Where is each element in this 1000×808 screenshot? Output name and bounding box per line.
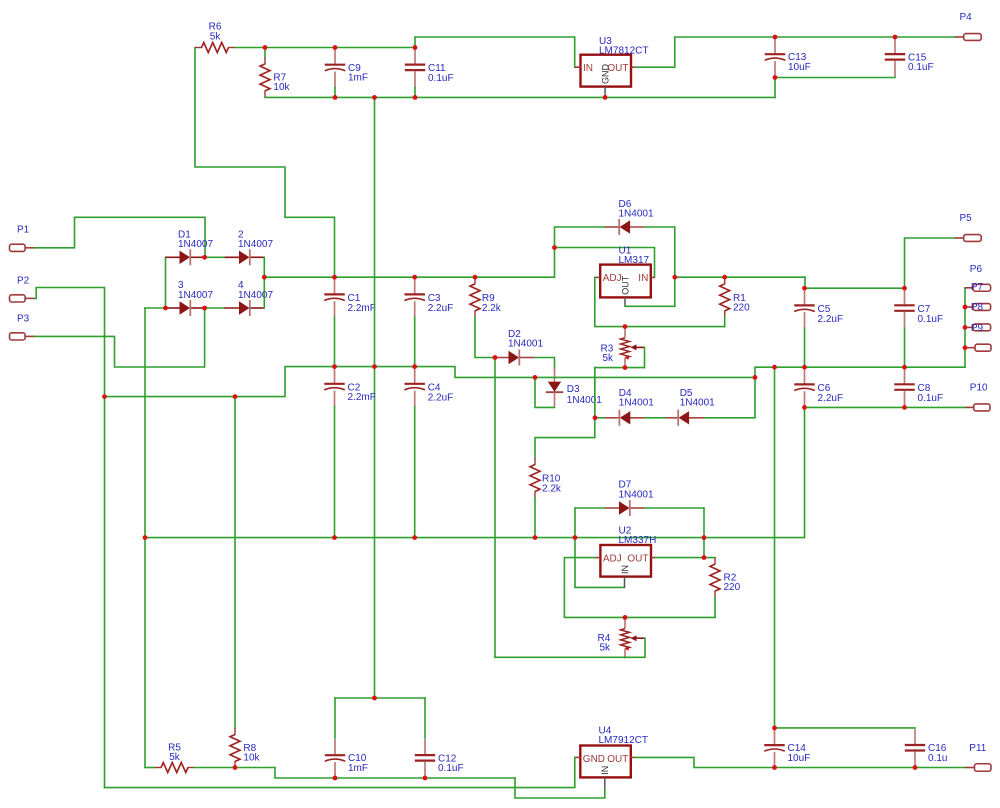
svg-text:5k: 5k — [210, 31, 222, 42]
wire D7 left branch — [575, 507, 605, 509]
wire D1-D2 link — [205, 256, 225, 258]
wire left AC feed down — [144, 308, 146, 538]
potentiometer R4 — [621, 619, 645, 659]
junction — [802, 286, 807, 291]
junction — [963, 325, 968, 330]
svg-text:LM317: LM317 — [619, 255, 650, 266]
connector P4 — [955, 34, 981, 41]
svg-text:P9: P9 — [971, 323, 984, 334]
wire bottom rail step2 into U4 IN — [515, 778, 605, 798]
wire C10 top stub — [334, 698, 336, 738]
pin lead U1 OUT — [624, 297, 626, 306]
pin lead U4 IN — [604, 777, 606, 788]
junction — [202, 306, 207, 311]
junction — [163, 306, 168, 311]
svg-text:5k: 5k — [603, 353, 615, 364]
junction — [233, 394, 238, 399]
svg-text:ADJ: ADJ — [603, 553, 622, 564]
svg-text:P4: P4 — [960, 12, 973, 23]
wire C5 bottom stub — [804, 328, 806, 367]
wire C11 bottom stub — [414, 88, 416, 98]
wire D7 right down — [703, 508, 705, 558]
svg-text:1N4007: 1N4007 — [238, 239, 273, 250]
svg-text:LM7812CT: LM7812CT — [599, 46, 648, 57]
resistor R1 — [720, 277, 730, 317]
capacitor C13 — [765, 38, 786, 77]
wire D6 right down to OUT loop — [645, 227, 675, 306]
junction — [413, 45, 418, 50]
svg-text:LM7912CT: LM7912CT — [599, 735, 648, 746]
capacitor C4 — [404, 368, 425, 407]
junction — [412, 364, 417, 369]
wire C13/C15 bottom link — [775, 78, 895, 98]
junction — [672, 275, 677, 280]
regulator U3 LM7812CT — [581, 55, 632, 87]
svg-text:IN: IN — [600, 766, 610, 775]
svg-text:OUT: OUT — [607, 754, 628, 765]
connector P8 — [965, 304, 991, 311]
connector P11 — [965, 764, 991, 772]
diode D2 1N4001 — [495, 350, 535, 366]
wire D5 up to mid rail — [705, 377, 756, 417]
diode 4 1N4007 — [225, 300, 265, 316]
junction — [332, 535, 337, 540]
potentiometer R3 — [621, 328, 645, 368]
wire top rail to U3 IN — [415, 37, 575, 67]
connector P1 — [10, 244, 35, 251]
capacitor C15 — [885, 38, 905, 77]
wire R5 left stub — [145, 767, 155, 769]
wire top ground rail — [265, 96, 775, 98]
junction — [333, 776, 338, 781]
svg-text:220: 220 — [724, 582, 741, 593]
wire neg rail into U2 IN — [575, 508, 625, 587]
junction — [623, 365, 628, 370]
junction — [263, 45, 268, 50]
wire to P5 — [905, 238, 956, 288]
svg-text:1N4001: 1N4001 — [508, 338, 543, 349]
wire C14-C16 top link — [775, 727, 916, 729]
capacitor C14 — [764, 729, 785, 768]
svg-text:0.1uF: 0.1uF — [918, 393, 944, 404]
junction — [772, 365, 777, 370]
junction — [963, 305, 968, 310]
capacitor C9 — [325, 49, 346, 88]
junction — [802, 405, 807, 410]
capacitor C1 — [324, 278, 345, 317]
svg-text:P5: P5 — [960, 213, 973, 224]
regulator U4 LM7912CT — [580, 746, 631, 778]
svg-text:ADJ: ADJ — [603, 273, 622, 284]
svg-text:GND: GND — [583, 754, 605, 765]
svg-text:2.2mF: 2.2mF — [348, 303, 376, 314]
pin lead U1 IN — [651, 276, 655, 278]
capacitor C8 — [894, 368, 914, 407]
pin lead U2 OUT — [651, 557, 656, 559]
resistor R6 — [195, 43, 235, 53]
junction — [722, 275, 727, 280]
junction — [143, 535, 148, 540]
connector P9 — [965, 324, 991, 331]
svg-text:0.1uF: 0.1uF — [438, 763, 464, 774]
wire bridge right vertical — [263, 257, 265, 308]
svg-text:220: 220 — [733, 303, 750, 314]
wire P3 to bridge bottom — [35, 308, 205, 367]
junction — [802, 365, 807, 370]
junction — [423, 776, 428, 781]
junction — [332, 275, 337, 280]
diode D4 1N4001 — [605, 410, 645, 426]
pin lead U2 ADJ — [595, 557, 600, 559]
svg-text:0.1u: 0.1u — [928, 753, 947, 764]
svg-text:GND: GND — [601, 64, 611, 85]
svg-text:P6: P6 — [970, 264, 983, 275]
resistor R9 — [470, 277, 480, 317]
svg-text:1N4007: 1N4007 — [178, 290, 213, 301]
diode D5 1N4001 — [666, 410, 705, 426]
pin lead U3 OUT — [631, 66, 636, 68]
resistor R5 — [155, 763, 195, 773]
svg-text:P10: P10 — [970, 382, 988, 393]
junction — [902, 405, 907, 410]
svg-text:LM337H: LM337H — [619, 535, 657, 546]
svg-text:1N4007: 1N4007 — [238, 290, 273, 301]
junction — [552, 245, 557, 250]
junction — [333, 45, 338, 50]
wire D7 right branch — [645, 507, 705, 509]
junction — [413, 95, 418, 100]
svg-text:IN: IN — [583, 63, 593, 74]
wire P2 down left side — [35, 288, 105, 397]
junction — [473, 275, 478, 280]
junction — [773, 75, 778, 80]
svg-text:2.2mF: 2.2mF — [348, 392, 376, 403]
wire left branch down to R5 — [144, 538, 146, 768]
diode 3 1N4007 — [166, 300, 205, 316]
junction — [902, 365, 907, 370]
junction — [372, 696, 377, 701]
pin lead U3 GND — [604, 87, 606, 98]
svg-text:2.2k: 2.2k — [542, 483, 562, 494]
wire bottom rail step1 — [275, 768, 515, 779]
connector P7 — [965, 284, 991, 291]
junction — [372, 364, 377, 369]
wire C6/C8 bottom to P10 — [805, 406, 966, 408]
wire U2 OUT — [656, 557, 715, 559]
svg-text:P7: P7 — [971, 282, 984, 293]
wire output header stack — [964, 288, 966, 367]
wire bridge left tap — [145, 307, 166, 309]
capacitor C2 — [324, 368, 345, 407]
svg-text:2.2uF: 2.2uF — [428, 303, 454, 314]
svg-text:1mF: 1mF — [348, 73, 368, 84]
wire C1 bottom stub — [334, 317, 336, 366]
junction — [533, 535, 538, 540]
junction — [493, 355, 498, 360]
svg-text:P1: P1 — [17, 225, 30, 236]
capacitor C5 — [794, 289, 815, 328]
junction — [102, 394, 107, 399]
wire D4-D5 link — [645, 417, 666, 419]
wire center vertical upper — [374, 97, 376, 366]
svg-text:5k: 5k — [600, 643, 612, 654]
svg-text:P2: P2 — [17, 276, 30, 287]
svg-text:OUT: OUT — [620, 275, 630, 295]
capacitor C16 — [905, 729, 925, 768]
junction — [772, 765, 777, 770]
svg-text:1N4001: 1N4001 — [567, 395, 602, 406]
wire lower mid rail — [145, 537, 805, 539]
svg-text:0.1uF: 0.1uF — [908, 62, 934, 73]
svg-text:5k: 5k — [169, 752, 181, 763]
wire R10 bottom stub — [534, 498, 536, 538]
svg-text:OUT: OUT — [607, 63, 628, 74]
junction — [963, 345, 968, 350]
resistor R8 — [230, 728, 240, 768]
regulator U2 LM337H — [600, 545, 651, 577]
wire U1 OUT loop — [625, 305, 675, 307]
capacitor C10 — [325, 739, 346, 778]
diode 2 1N4007 — [225, 249, 265, 265]
connector P10 — [965, 404, 990, 411]
junction — [593, 415, 598, 420]
wire R3 bottom link — [595, 367, 645, 369]
wire U1 ADJ net — [595, 277, 725, 326]
wire R8 top feed — [234, 397, 236, 728]
pin lead U3 IN — [575, 66, 581, 68]
svg-text:2.2uF: 2.2uF — [818, 393, 844, 404]
wire C4 bottom stub — [414, 407, 416, 538]
wire U2 ADJ loop — [564, 558, 715, 618]
pin lead U1 ADJ — [595, 276, 600, 278]
wire right vertical to C14 — [774, 367, 776, 728]
junction — [913, 765, 918, 770]
svg-text:1N4007: 1N4007 — [178, 239, 213, 250]
wire +out step to C5/C7 — [805, 277, 905, 288]
junction — [573, 535, 578, 540]
wire R5 to step — [195, 767, 276, 769]
wire to D4 — [595, 417, 605, 419]
svg-text:0.1uF: 0.1uF — [428, 73, 454, 84]
junction — [412, 535, 417, 540]
junction — [372, 95, 377, 100]
wire C3 bottom stub — [414, 317, 416, 366]
pin lead U2 IN — [624, 577, 626, 588]
svg-text:D3: D3 — [567, 384, 580, 395]
svg-text:1N4001: 1N4001 — [680, 398, 715, 409]
junction — [623, 324, 628, 329]
wire +output rail — [675, 276, 805, 278]
junction — [332, 364, 337, 369]
svg-text:P8: P8 — [971, 302, 984, 313]
wire R7 top stub — [264, 48, 266, 58]
wire R1 bottom stub — [724, 317, 726, 326]
svg-text:10uF: 10uF — [788, 62, 811, 73]
pin lead U4 OUT — [631, 756, 636, 758]
wire P1 to bridge — [35, 217, 205, 257]
junction — [623, 615, 628, 620]
svg-text:0.1uF: 0.1uF — [918, 314, 944, 325]
svg-text:IN: IN — [638, 273, 648, 284]
wire ADJ net down to R10 — [535, 368, 595, 458]
resistor R10 — [530, 458, 540, 498]
wire R4 bottom / wiper tie — [495, 638, 645, 657]
wire P2 net to bottom rail — [104, 397, 106, 788]
svg-text:1mF: 1mF — [348, 763, 368, 774]
junction — [772, 726, 777, 731]
wire D3-D4 link — [205, 307, 225, 309]
connector P5 — [955, 235, 981, 242]
regulator U1 LM317 — [600, 265, 651, 298]
wire R3 wiper tie — [644, 347, 646, 367]
pin lead D3 top — [554, 368, 556, 381]
svg-text:2.2uF: 2.2uF — [818, 314, 844, 325]
wire R9 bottom to D2 — [475, 317, 495, 357]
svg-text:1N4001: 1N4001 — [619, 489, 654, 500]
capacitor C7 — [894, 289, 914, 328]
wire U4 GND to bottom-most rail — [105, 757, 575, 787]
junction — [533, 375, 538, 380]
svg-text:10uF: 10uF — [788, 753, 811, 764]
capacitor C3 — [404, 278, 425, 317]
junction — [902, 286, 907, 291]
junction — [702, 555, 707, 560]
diode D7 1N4001 — [605, 500, 645, 516]
wire top rail +raw to C11 — [235, 47, 415, 49]
resistor R7 — [260, 57, 270, 97]
wire C2 bottom stub — [334, 407, 336, 538]
svg-text:10k: 10k — [273, 82, 290, 93]
wire U3 OUT to P4 — [636, 37, 955, 67]
wire lower mid rail east riser — [804, 407, 806, 537]
junction — [262, 275, 267, 280]
wire D2 junction down to R4 — [494, 358, 496, 658]
connector P2 — [10, 295, 35, 302]
svg-text:P3: P3 — [17, 314, 30, 325]
svg-text:IN: IN — [620, 565, 630, 574]
capacitor C12 — [415, 739, 435, 778]
connector P3 — [10, 333, 35, 340]
svg-text:2.2uF: 2.2uF — [428, 392, 454, 403]
wire R6-left to bridge output rail — [195, 48, 335, 278]
junction — [603, 95, 608, 100]
wire ADJ net vertical (through D4 row) — [594, 368, 596, 418]
junction — [753, 375, 758, 380]
svg-text:1N4001: 1N4001 — [619, 209, 654, 220]
connector P6 pin4 — [965, 344, 991, 351]
wire C7 bottom stub — [904, 328, 906, 367]
wire D6 left branch — [555, 227, 606, 248]
junction — [333, 95, 338, 100]
wire mid common rail — [105, 367, 966, 397]
wire center vertical lower — [374, 367, 376, 698]
junction — [893, 35, 898, 40]
junction — [202, 255, 207, 260]
capacitor C6 — [794, 368, 815, 407]
capacitor C11 — [405, 49, 425, 88]
diode D3 1N4001 — [546, 382, 563, 393]
svg-text:1N4001: 1N4001 — [619, 398, 654, 409]
wire bridge + rail — [264, 276, 554, 278]
junction — [702, 535, 707, 540]
wire C9 bottom stub — [334, 88, 336, 98]
wire C12 top stub — [424, 698, 426, 738]
junction — [233, 765, 238, 770]
svg-text:10k: 10k — [243, 753, 260, 764]
pin lead U4 GND — [575, 756, 580, 758]
junction — [412, 275, 417, 280]
diode D1 1N4007 — [166, 249, 205, 265]
wire D3 to mid rail — [535, 377, 555, 407]
wire bridge left vertical — [165, 257, 167, 308]
wire R2 bottom stub — [714, 598, 716, 618]
pin lead D3 bottom — [554, 392, 556, 407]
junction — [773, 35, 778, 40]
svg-text:P11: P11 — [969, 743, 986, 754]
wire C10-C12 top link — [335, 697, 425, 699]
wire D2 to D3 — [535, 358, 555, 369]
diode D6 1N4001 — [605, 219, 644, 235]
svg-text:OUT: OUT — [627, 553, 648, 564]
wire wrap to U1 IN — [555, 248, 655, 278]
wire U4 OUT to P11 — [636, 757, 966, 767]
resistor R2 — [710, 558, 720, 598]
svg-text:2.2k: 2.2k — [482, 303, 502, 314]
